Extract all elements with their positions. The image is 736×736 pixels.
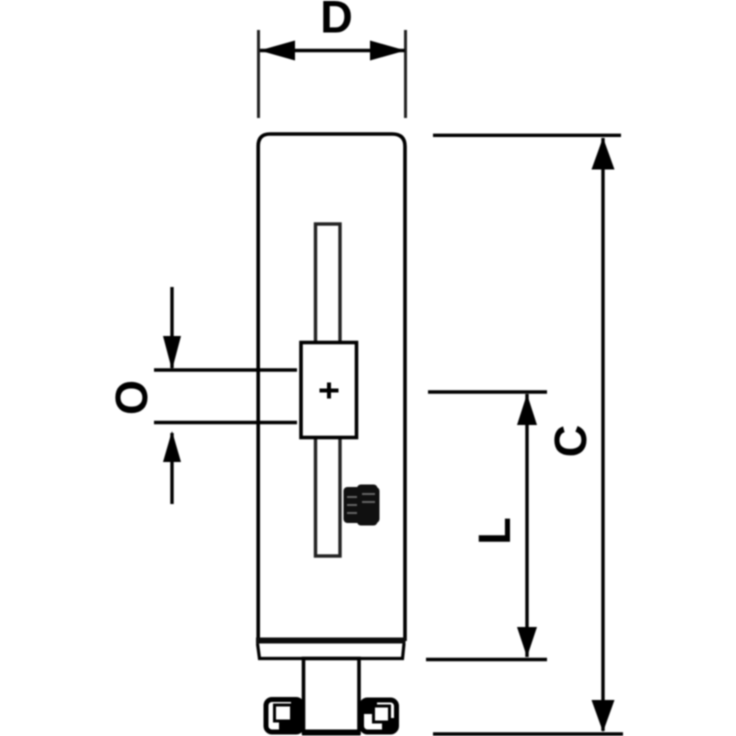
dimension D right arrowhead [370,41,406,61]
dimension O lower arrowhead [163,431,181,462]
label D [320,0,353,43]
label C [545,425,596,458]
knurled adjustment knob [344,485,380,526]
svg-text:O: O [106,380,157,415]
dimension L bottom arrowhead [517,627,537,657]
dimension L top arrowhead [517,394,537,425]
dimension C top extension line [433,134,621,137]
dimension C bottom extension line [433,732,623,735]
dimension O upper arrowhead [163,336,181,370]
dimension L top extension line [428,390,547,393]
dimension D left arrowhead [260,41,296,61]
dimension C bottom arrowhead [592,700,615,732]
svg-text:L: L [469,517,520,545]
dimension D extension line left [257,30,260,118]
dimension C line [601,138,604,731]
dimension D line [260,49,405,52]
label L [469,517,520,545]
left base contact [266,700,302,733]
svg-text:C: C [545,425,596,458]
dimension O line lower segment [170,433,173,504]
dimension C top arrowhead [592,138,615,170]
dimension O line upper segment [170,287,173,368]
dimension O lower extension line [154,421,297,424]
cap rim [258,644,405,659]
svg-text:D: D [320,0,353,43]
inner frame rod [316,224,341,556]
label O [106,380,157,415]
lamp seal line (thick bottom of body) [256,638,406,644]
dimension L bottom extension line [426,658,547,661]
dimension L line [525,394,528,657]
dimension O upper extension line [154,368,297,371]
lamp outer body [258,134,405,641]
right base contact [362,700,397,732]
dimension D extension line right [404,30,407,118]
burner box with + mark [301,343,357,438]
base stem [302,659,361,736]
